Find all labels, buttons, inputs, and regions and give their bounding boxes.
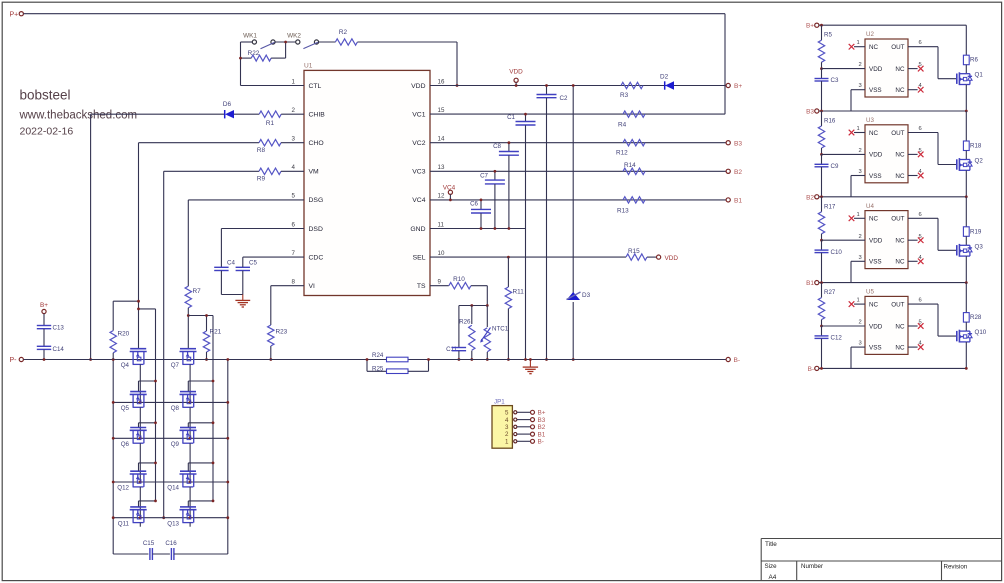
svg-text:Q7: Q7: [171, 362, 180, 369]
terminal B- right: [726, 357, 740, 364]
junction C2 top: [545, 84, 548, 87]
svg-text:1: 1: [505, 439, 509, 446]
svg-text:1: 1: [857, 126, 860, 132]
svg-text:D2: D2: [660, 74, 669, 81]
junction TS node corner: [486, 304, 489, 307]
svg-text:Q5: Q5: [121, 405, 130, 412]
resistor R22: [241, 42, 286, 61]
svg-text:DSD: DSD: [309, 226, 323, 233]
diode D6: [223, 101, 259, 119]
svg-text:5: 5: [505, 410, 509, 417]
svg-text:5: 5: [292, 193, 296, 200]
resistor R9: [164, 168, 304, 183]
svg-text:B1: B1: [806, 280, 814, 287]
junction C6 gnd: [480, 227, 483, 230]
svg-text:C10: C10: [831, 249, 843, 256]
wire source Q5: [139, 407, 141, 438]
svg-text:R11: R11: [513, 289, 525, 296]
op-amp U2 body: [865, 31, 908, 97]
svg-text:12: 12: [438, 193, 445, 200]
pin 8 VI of U1: [292, 279, 315, 291]
svg-text:Q13: Q13: [167, 520, 179, 527]
junction source Q9: [189, 481, 192, 484]
pin 2 VDD of U2: [822, 62, 883, 73]
designator U1: [304, 63, 313, 70]
pin 6 OUT of U3: [891, 126, 956, 165]
svg-text:NTC1: NTC1: [492, 326, 509, 333]
svg-text:A4: A4: [769, 574, 777, 581]
junction block rail R col B+: [820, 24, 823, 27]
net label P+: [10, 12, 19, 19]
pin 4 NC of U2: [895, 83, 923, 94]
terminal B2 right: [726, 169, 742, 176]
svg-text:C1: C1: [507, 114, 515, 121]
transistor Q8: [171, 392, 197, 412]
wire gate jog right Q13: [188, 501, 213, 507]
op-amp U5 body: [865, 289, 908, 355]
svg-text:Q3: Q3: [975, 243, 984, 250]
junction C6 top: [480, 199, 483, 202]
svg-text:R27: R27: [824, 289, 836, 296]
junction C14 rail: [43, 358, 46, 361]
wire CHO riser: [138, 143, 140, 349]
junction right outer top: [226, 358, 229, 361]
wire gate jog left Q6: [139, 423, 156, 427]
resistor R27: [818, 283, 836, 326]
svg-text:R2: R2: [339, 29, 348, 36]
terminal B+ left: [42, 309, 46, 313]
pin 5 NC of U4: [895, 234, 923, 245]
wire source Q6: [139, 443, 141, 482]
svg-text:2: 2: [505, 431, 509, 438]
junction block rail Q col B1: [965, 281, 968, 284]
pin 11 GND of U1: [410, 221, 444, 233]
junction C11 rail: [458, 358, 461, 361]
terminal P-: [19, 357, 23, 361]
wire R2 to VDD pin: [456, 42, 458, 86]
wire gate jog left Q11: [139, 501, 156, 507]
svg-text:GND: GND: [410, 226, 425, 233]
resistor R21: [203, 316, 221, 360]
svg-text:DSG: DSG: [309, 197, 324, 204]
svg-text:Q4: Q4: [121, 362, 130, 369]
junction rail right y=438: [226, 437, 229, 440]
junction gnd2: [529, 358, 532, 361]
wire Q1 source: [965, 85, 967, 112]
resistor R13: [617, 197, 645, 215]
svg-text:R7: R7: [193, 288, 202, 295]
svg-text:B+: B+: [538, 410, 546, 417]
wire bank rail y=438: [113, 437, 228, 439]
svg-text:NC: NC: [895, 259, 905, 266]
wire block rail B2: [819, 196, 966, 198]
capacitor C14: [37, 346, 65, 360]
svg-text:NC: NC: [869, 130, 879, 137]
svg-text:R9: R9: [257, 176, 266, 183]
wire TS node: [459, 305, 487, 307]
diode D3 riser: [572, 86, 574, 360]
junction R22 left: [239, 57, 242, 60]
junction CHIB rail: [89, 358, 92, 361]
junction rail left y=517: [112, 516, 115, 519]
pin 6 OUT of U4: [891, 212, 956, 251]
pin 2 of JP1: [505, 431, 531, 438]
resistor R8: [139, 140, 305, 155]
junction R26 node: [470, 304, 473, 307]
transistor Q7: [171, 349, 197, 369]
transistor Q10: [957, 329, 987, 342]
svg-text:VM: VM: [309, 169, 320, 176]
svg-text:B2: B2: [806, 194, 814, 201]
pin 3 of JP1: [505, 424, 531, 431]
junction source Q12: [139, 516, 142, 519]
svg-text:C16: C16: [165, 540, 177, 547]
resistor R26: [459, 306, 475, 360]
svg-text:P+: P+: [10, 12, 19, 19]
svg-text:R6: R6: [970, 57, 978, 64]
junction R25 right: [427, 358, 430, 361]
junction block rail R col B1: [820, 281, 823, 284]
capacitor C16: [165, 540, 227, 560]
svg-text:1: 1: [857, 212, 860, 218]
svg-text:6: 6: [919, 212, 922, 218]
junction R17 mid: [820, 239, 823, 242]
capacitor C1: [507, 114, 535, 360]
svg-text:C3: C3: [831, 77, 839, 84]
transistor Q1: [957, 72, 984, 85]
capacitor C3: [815, 69, 839, 111]
pin 12 VC4 of U1: [412, 193, 445, 205]
junction block rail Q col B3: [965, 110, 968, 113]
svg-text:U3: U3: [866, 117, 874, 124]
svg-text:R28: R28: [970, 314, 982, 321]
junction R20 jog: [137, 300, 140, 303]
resistor R4: [618, 111, 645, 129]
ground symbol 1: [235, 295, 250, 308]
junction block rail Q col B2: [965, 195, 968, 198]
svg-text:2: 2: [859, 320, 862, 326]
wire VC3 line: [430, 170, 726, 172]
website text: [19, 110, 138, 122]
terminal B1 right: [726, 198, 742, 205]
junction R23 rail: [269, 358, 272, 361]
svg-text:R23: R23: [276, 329, 288, 336]
junction left bus Q6: [154, 421, 157, 424]
capacitor C2: [537, 86, 568, 360]
wire bank rail y=402: [113, 401, 228, 403]
wire P- rail: [23, 359, 726, 361]
junction R11 top: [507, 256, 510, 259]
resistor R5: [818, 25, 832, 68]
wire bank rail y=517: [113, 517, 228, 519]
svg-text:NC: NC: [869, 216, 879, 223]
svg-text:2: 2: [859, 234, 862, 240]
junction R25 left: [366, 358, 369, 361]
svg-text:CHO: CHO: [309, 140, 324, 147]
wire source Q8: [189, 407, 191, 438]
terminal B1 block rail: [806, 280, 819, 287]
svg-text:Q8: Q8: [171, 405, 180, 412]
wire block rail B+: [819, 24, 966, 26]
junction C8 gnd: [508, 227, 511, 230]
svg-text:U5: U5: [866, 289, 874, 296]
junction B- rail R col: [820, 367, 823, 370]
wire TS corner: [486, 286, 488, 306]
capacitor C12: [815, 326, 843, 368]
wire VC4 line: [430, 199, 726, 201]
svg-text:U1: U1: [304, 63, 313, 70]
terminal B+ right: [726, 83, 742, 90]
svg-text:R18: R18: [970, 143, 982, 150]
svg-text:VC2: VC2: [412, 140, 425, 147]
wire right outer vertical: [227, 360, 229, 555]
svg-text:R21: R21: [210, 329, 222, 336]
resistor R3: [620, 82, 643, 99]
svg-text:CDC: CDC: [309, 254, 324, 261]
pin 2 VDD of U3: [822, 148, 883, 159]
junction C7 top: [494, 170, 497, 173]
net label P-: [10, 357, 18, 364]
resistor R11: [505, 257, 524, 359]
date text: [20, 125, 74, 137]
svg-text:C4: C4: [227, 260, 235, 267]
svg-text:NC: NC: [895, 173, 905, 180]
power terminal VDD top: [509, 69, 523, 86]
svg-text:VSS: VSS: [869, 259, 882, 266]
svg-text:3: 3: [859, 341, 862, 347]
svg-text:P-: P-: [10, 357, 18, 364]
pin 1 NC of U2: [849, 40, 879, 51]
svg-text:R26: R26: [459, 319, 471, 326]
pin 6 DSD of U1: [292, 221, 323, 233]
svg-text:VDD: VDD: [869, 152, 883, 159]
switch WK1: [241, 33, 296, 49]
junction right bus Q13: [212, 500, 215, 503]
svg-text:NC: NC: [895, 344, 905, 351]
wire block rail B3: [819, 110, 966, 112]
svg-text:13: 13: [438, 164, 445, 171]
pin 3 VSS of U4: [851, 255, 882, 283]
svg-text:Number: Number: [801, 563, 823, 570]
wire bank rail y=482: [113, 481, 228, 483]
svg-text:Q1: Q1: [975, 72, 984, 79]
pin 1 NC of U4: [849, 212, 879, 223]
pin 5 NC of U2: [895, 62, 923, 73]
terminal B1 of JP1: [531, 431, 546, 438]
svg-text:R4: R4: [618, 122, 627, 129]
pin 7 CDC of U1: [292, 250, 324, 262]
svg-text:VDD: VDD: [869, 66, 883, 73]
pin 4 of JP1: [505, 417, 531, 424]
svg-text:OUT: OUT: [891, 44, 904, 51]
pin 3 VSS of U2: [851, 83, 882, 111]
resistor R7: [185, 286, 201, 348]
power terminal VC4: [443, 184, 456, 200]
svg-text:Size: Size: [765, 563, 778, 570]
svg-text:14: 14: [438, 136, 445, 143]
wire gate jog right Q8: [188, 381, 213, 391]
transistor Q4: [121, 349, 147, 369]
svg-text:B+: B+: [734, 83, 742, 90]
thermistor NTC1: [480, 306, 509, 360]
wire VC2 line: [430, 142, 726, 144]
junction rail right y=402: [226, 401, 229, 404]
svg-text:NC: NC: [895, 152, 905, 159]
svg-text:C14: C14: [53, 346, 65, 353]
svg-text:bobsteel: bobsteel: [20, 88, 71, 103]
capacitor C10: [815, 240, 843, 282]
wire source Q9: [189, 443, 191, 482]
pin 5 of JP1: [505, 410, 531, 417]
terminal P+: [19, 12, 23, 16]
ground symbol 2: [523, 360, 538, 374]
svg-text:3: 3: [859, 83, 862, 89]
transistor Q12: [117, 471, 146, 491]
terminal B2 block rail: [806, 194, 819, 201]
svg-text:CTL: CTL: [309, 83, 322, 90]
svg-text:NC: NC: [895, 66, 905, 73]
capacitor C4: [214, 260, 235, 295]
wire source Q4: [139, 364, 141, 402]
svg-text:4: 4: [292, 164, 296, 171]
terminal B+ block rail: [806, 23, 819, 30]
pin 6 OUT of U5: [891, 298, 956, 337]
svg-text:1: 1: [857, 40, 860, 46]
junction R5 mid: [820, 67, 823, 70]
diode D2: [660, 74, 674, 90]
title block text Size: [765, 563, 778, 570]
junction gnd line rail: [524, 358, 527, 361]
svg-text:C15: C15: [143, 540, 155, 547]
wire Q3 source: [965, 256, 967, 283]
svg-text:6: 6: [919, 126, 922, 132]
resistor R20: [110, 331, 130, 360]
pin 15 VC1 of U1: [412, 107, 445, 119]
title block text Revision: [944, 564, 968, 571]
IC U1 body: [304, 70, 430, 295]
svg-text:C6: C6: [470, 201, 478, 208]
svg-text:SEL: SEL: [413, 254, 426, 261]
junction rail right y=482: [226, 481, 229, 484]
svg-text:TS: TS: [417, 283, 426, 290]
resistor R23: [268, 325, 288, 360]
svg-text:C12: C12: [831, 335, 843, 342]
svg-text:WK1: WK1: [243, 33, 257, 40]
svg-text:R10: R10: [453, 276, 465, 283]
pin 1 of JP1: [505, 439, 531, 446]
junction rail left y=482: [112, 481, 115, 484]
svg-text:CHIB: CHIB: [309, 111, 326, 118]
transistor Q13: [167, 507, 196, 527]
power terminal VDD right: [657, 255, 679, 262]
svg-text:U2: U2: [866, 31, 874, 38]
wire gate jog right Q14: [188, 463, 213, 471]
svg-text:NC: NC: [895, 238, 905, 245]
junction left outer top: [112, 358, 115, 361]
resistor R12: [616, 140, 645, 157]
junction source Q7: [189, 401, 192, 404]
transistor Q9: [171, 428, 197, 448]
wire VM riser: [163, 171, 165, 517]
svg-text:VDD: VDD: [665, 255, 679, 262]
op-amp U4 body: [865, 203, 908, 269]
junction D3 top: [572, 84, 575, 87]
svg-text:VDD: VDD: [869, 323, 883, 330]
svg-text:OUT: OUT: [891, 216, 904, 223]
svg-text:R13: R13: [617, 208, 629, 215]
pin 1 CTL of U1: [292, 78, 322, 90]
connector JP1: [492, 399, 512, 449]
svg-text:VDD: VDD: [509, 69, 523, 76]
svg-text:C5: C5: [249, 260, 257, 267]
svg-text:1: 1: [857, 298, 860, 304]
capacitor C5: [236, 260, 258, 295]
svg-text:Q9: Q9: [171, 441, 180, 448]
svg-text:R8: R8: [257, 147, 266, 154]
pin 4 VM of U1: [292, 164, 319, 176]
pin 4 NC of U5: [895, 341, 923, 352]
transistor Q14: [167, 471, 196, 491]
svg-text:VDD: VDD: [411, 83, 425, 90]
resistor R1: [259, 111, 304, 127]
svg-text:B1: B1: [734, 198, 742, 205]
svg-text:VSS: VSS: [869, 344, 882, 351]
pin 9 TS of U1: [417, 279, 442, 291]
svg-text:Q2: Q2: [975, 158, 984, 165]
svg-text:JP1: JP1: [494, 399, 505, 406]
junction VDD label: [515, 84, 518, 87]
svg-text:7: 7: [292, 250, 296, 257]
wire block rail B-: [819, 367, 966, 369]
transistor Q3: [957, 243, 984, 256]
svg-text:2022-02-16: 2022-02-16: [20, 125, 74, 137]
svg-text:R14: R14: [624, 162, 636, 169]
svg-text:Title: Title: [765, 541, 777, 548]
junction left bus Q5: [154, 380, 157, 383]
svg-text:15: 15: [438, 107, 445, 114]
svg-text:R3: R3: [620, 92, 629, 99]
resistor R2: [335, 29, 457, 45]
svg-text:VC4: VC4: [412, 197, 425, 204]
svg-text:WK2: WK2: [287, 33, 301, 40]
svg-text:2: 2: [292, 107, 296, 114]
svg-text:VC3: VC3: [412, 169, 425, 176]
svg-text:R12: R12: [616, 150, 628, 157]
svg-text:VSS: VSS: [869, 173, 882, 180]
resistor R6: [963, 25, 978, 73]
svg-text:9: 9: [438, 279, 442, 286]
wire VDD line: [430, 85, 726, 87]
transistor Q2: [957, 158, 984, 171]
terminal B- of JP1: [531, 439, 544, 446]
wire C4 C5 common: [221, 294, 242, 296]
pin 16 VDD of U1: [411, 78, 445, 90]
svg-text:VC1: VC1: [412, 111, 425, 118]
net label B+ left: [40, 302, 48, 309]
svg-text:1: 1: [292, 78, 296, 85]
svg-text:16: 16: [438, 78, 445, 85]
author text bobsteel: [20, 88, 71, 103]
pin 5 DSG of U1: [292, 193, 324, 205]
svg-text:2: 2: [859, 148, 862, 154]
pin 1 NC of U3: [849, 126, 879, 137]
transistor Q6: [121, 428, 147, 448]
svg-text:R16: R16: [824, 118, 836, 125]
junction R22 right top: [284, 41, 287, 44]
wire P+ top rail: [23, 14, 725, 115]
svg-text:6: 6: [919, 40, 922, 46]
wire bottom loop left: [113, 553, 148, 555]
